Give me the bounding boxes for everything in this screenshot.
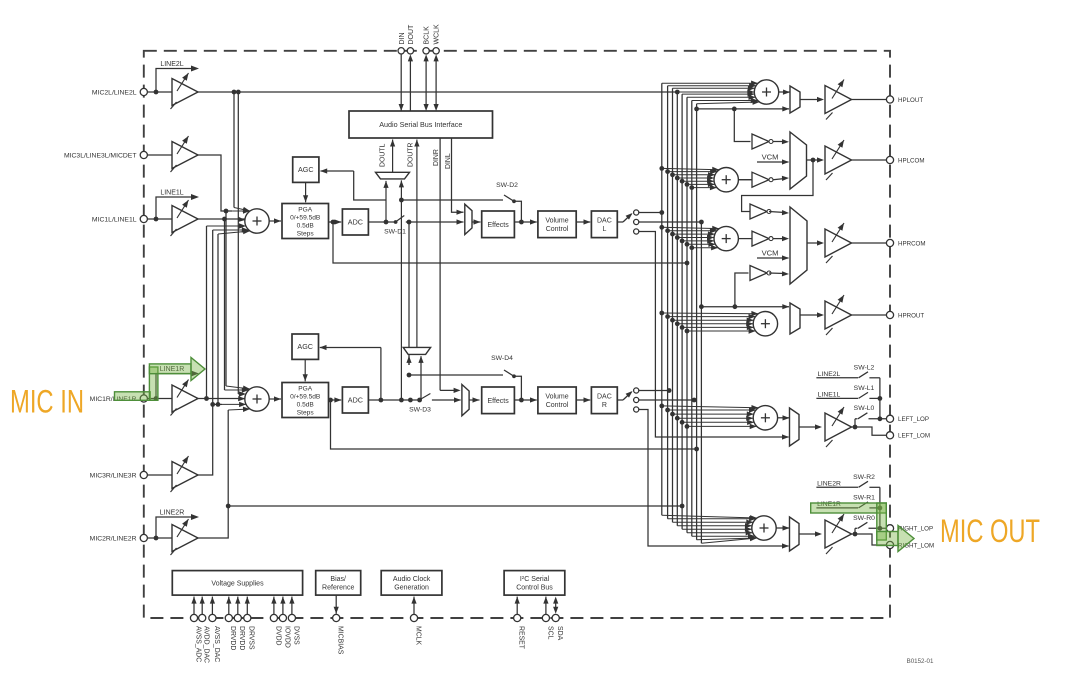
svg-text:DINL: DINL: [445, 153, 452, 169]
svg-text:Audio Serial Bus Interface: Audio Serial Bus Interface: [379, 120, 462, 129]
svg-text:Bias/: Bias/: [330, 576, 346, 583]
svg-text:SW-D3: SW-D3: [409, 407, 431, 414]
svg-text:LINE1L: LINE1L: [160, 190, 183, 197]
svg-text:SDA: SDA: [556, 626, 563, 641]
svg-text:DAC: DAC: [597, 218, 612, 225]
svg-text:Steps: Steps: [297, 230, 315, 237]
svg-text:DIN: DIN: [399, 32, 406, 44]
svg-text:SW-R1: SW-R1: [853, 495, 875, 502]
svg-text:SW-D2: SW-D2: [496, 182, 518, 189]
svg-text:SW-L2: SW-L2: [854, 365, 875, 372]
svg-text:Generation: Generation: [394, 584, 429, 591]
svg-text:Control: Control: [546, 226, 569, 233]
svg-text:SCL: SCL: [546, 626, 553, 640]
svg-text:AVSS_ADC: AVSS_ADC: [194, 626, 201, 662]
svg-text:0.5dB: 0.5dB: [297, 401, 315, 408]
svg-text:RESET: RESET: [518, 626, 525, 650]
svg-text:AGC: AGC: [298, 165, 314, 174]
svg-text:LINE2L: LINE2L: [818, 371, 841, 378]
svg-text:SW-D1: SW-D1: [384, 229, 406, 236]
svg-text:VCM: VCM: [762, 249, 779, 258]
svg-text:HPRCOM: HPRCOM: [898, 240, 926, 247]
svg-text:LINE2R: LINE2R: [160, 510, 185, 517]
svg-text:0/+59.5dB: 0/+59.5dB: [290, 214, 321, 221]
svg-text:DOUTL: DOUTL: [380, 143, 387, 167]
svg-text:DRVDD: DRVDD: [238, 626, 245, 650]
svg-text:PGA: PGA: [298, 385, 313, 392]
svg-text:MIC2R/LINE2R: MIC2R/LINE2R: [90, 535, 137, 542]
svg-text:VCM: VCM: [762, 153, 779, 162]
svg-text:Control Bus: Control Bus: [516, 584, 553, 591]
svg-text:0/+59.5dB: 0/+59.5dB: [290, 393, 321, 400]
svg-text:MIC3R/LINE3R: MIC3R/LINE3R: [90, 472, 137, 479]
svg-text:AVDD_DAC: AVDD_DAC: [203, 626, 210, 663]
svg-text:SW-R0: SW-R0: [853, 515, 875, 522]
svg-text:AGC: AGC: [297, 342, 313, 351]
svg-text:SW-D4: SW-D4: [491, 355, 513, 362]
svg-text:DOUTR: DOUTR: [407, 142, 414, 167]
svg-text:SW-R2: SW-R2: [853, 474, 875, 481]
svg-text:0.5dB: 0.5dB: [297, 222, 315, 229]
svg-text:MIC1L/LINE1L: MIC1L/LINE1L: [92, 216, 137, 223]
svg-text:MIC OUT: MIC OUT: [940, 513, 1040, 549]
svg-text:Effects: Effects: [487, 222, 509, 229]
svg-text:MCLK: MCLK: [414, 626, 421, 646]
svg-text:ADC: ADC: [348, 218, 363, 227]
svg-text:Control: Control: [546, 402, 569, 409]
svg-text:Reference: Reference: [322, 584, 354, 591]
svg-text:WCLK: WCLK: [434, 24, 441, 45]
svg-text:DRVDD: DRVDD: [229, 626, 236, 650]
svg-text:AVSS_DAC: AVSS_DAC: [213, 626, 220, 662]
svg-text:L: L: [602, 226, 606, 233]
svg-text:DVDD: DVDD: [274, 626, 281, 646]
svg-text:Volume: Volume: [545, 218, 568, 225]
svg-text:DINR: DINR: [433, 149, 440, 166]
svg-text:LINE2L: LINE2L: [160, 61, 183, 68]
svg-text:LINE2R: LINE2R: [817, 480, 841, 487]
svg-text:MIC2L/LINE2L: MIC2L/LINE2L: [92, 89, 137, 96]
svg-text:MICBIAS: MICBIAS: [337, 626, 344, 655]
svg-text:LINE1L: LINE1L: [818, 391, 841, 398]
svg-text:SW-L0: SW-L0: [854, 405, 875, 412]
svg-text:SW-L1: SW-L1: [854, 385, 875, 392]
svg-text:HPLOUT: HPLOUT: [898, 97, 923, 104]
svg-text:Voltage Supplies: Voltage Supplies: [211, 580, 264, 587]
svg-text:LEFT_LOM: LEFT_LOM: [898, 433, 930, 440]
svg-text:DRVSS: DRVSS: [248, 626, 255, 650]
svg-text:DOUT: DOUT: [408, 24, 415, 45]
svg-text:ADC: ADC: [348, 396, 363, 405]
svg-text:Steps: Steps: [297, 409, 315, 416]
svg-text:Effects: Effects: [487, 398, 509, 405]
svg-text:IOVDD: IOVDD: [283, 626, 290, 648]
svg-text:B0152-01: B0152-01: [907, 658, 934, 665]
svg-text:HPLCOM: HPLCOM: [898, 157, 924, 164]
svg-text:HPROUT: HPROUT: [898, 312, 924, 319]
svg-text:Volume: Volume: [545, 394, 568, 401]
svg-text:PGA: PGA: [298, 206, 313, 213]
svg-text:DVSS: DVSS: [292, 626, 299, 645]
svg-text:MIC3L/LINE3L/MICDET: MIC3L/LINE3L/MICDET: [64, 152, 137, 159]
svg-text:BCLK: BCLK: [424, 26, 431, 45]
svg-text:R: R: [602, 402, 607, 409]
svg-text:Audio Clock: Audio Clock: [393, 576, 431, 583]
svg-text:MIC IN: MIC IN: [10, 384, 84, 420]
svg-text:DAC: DAC: [597, 394, 612, 401]
svg-text:I2C Serial: I2C Serial: [520, 575, 550, 583]
svg-text:LEFT_LOP: LEFT_LOP: [898, 416, 929, 423]
